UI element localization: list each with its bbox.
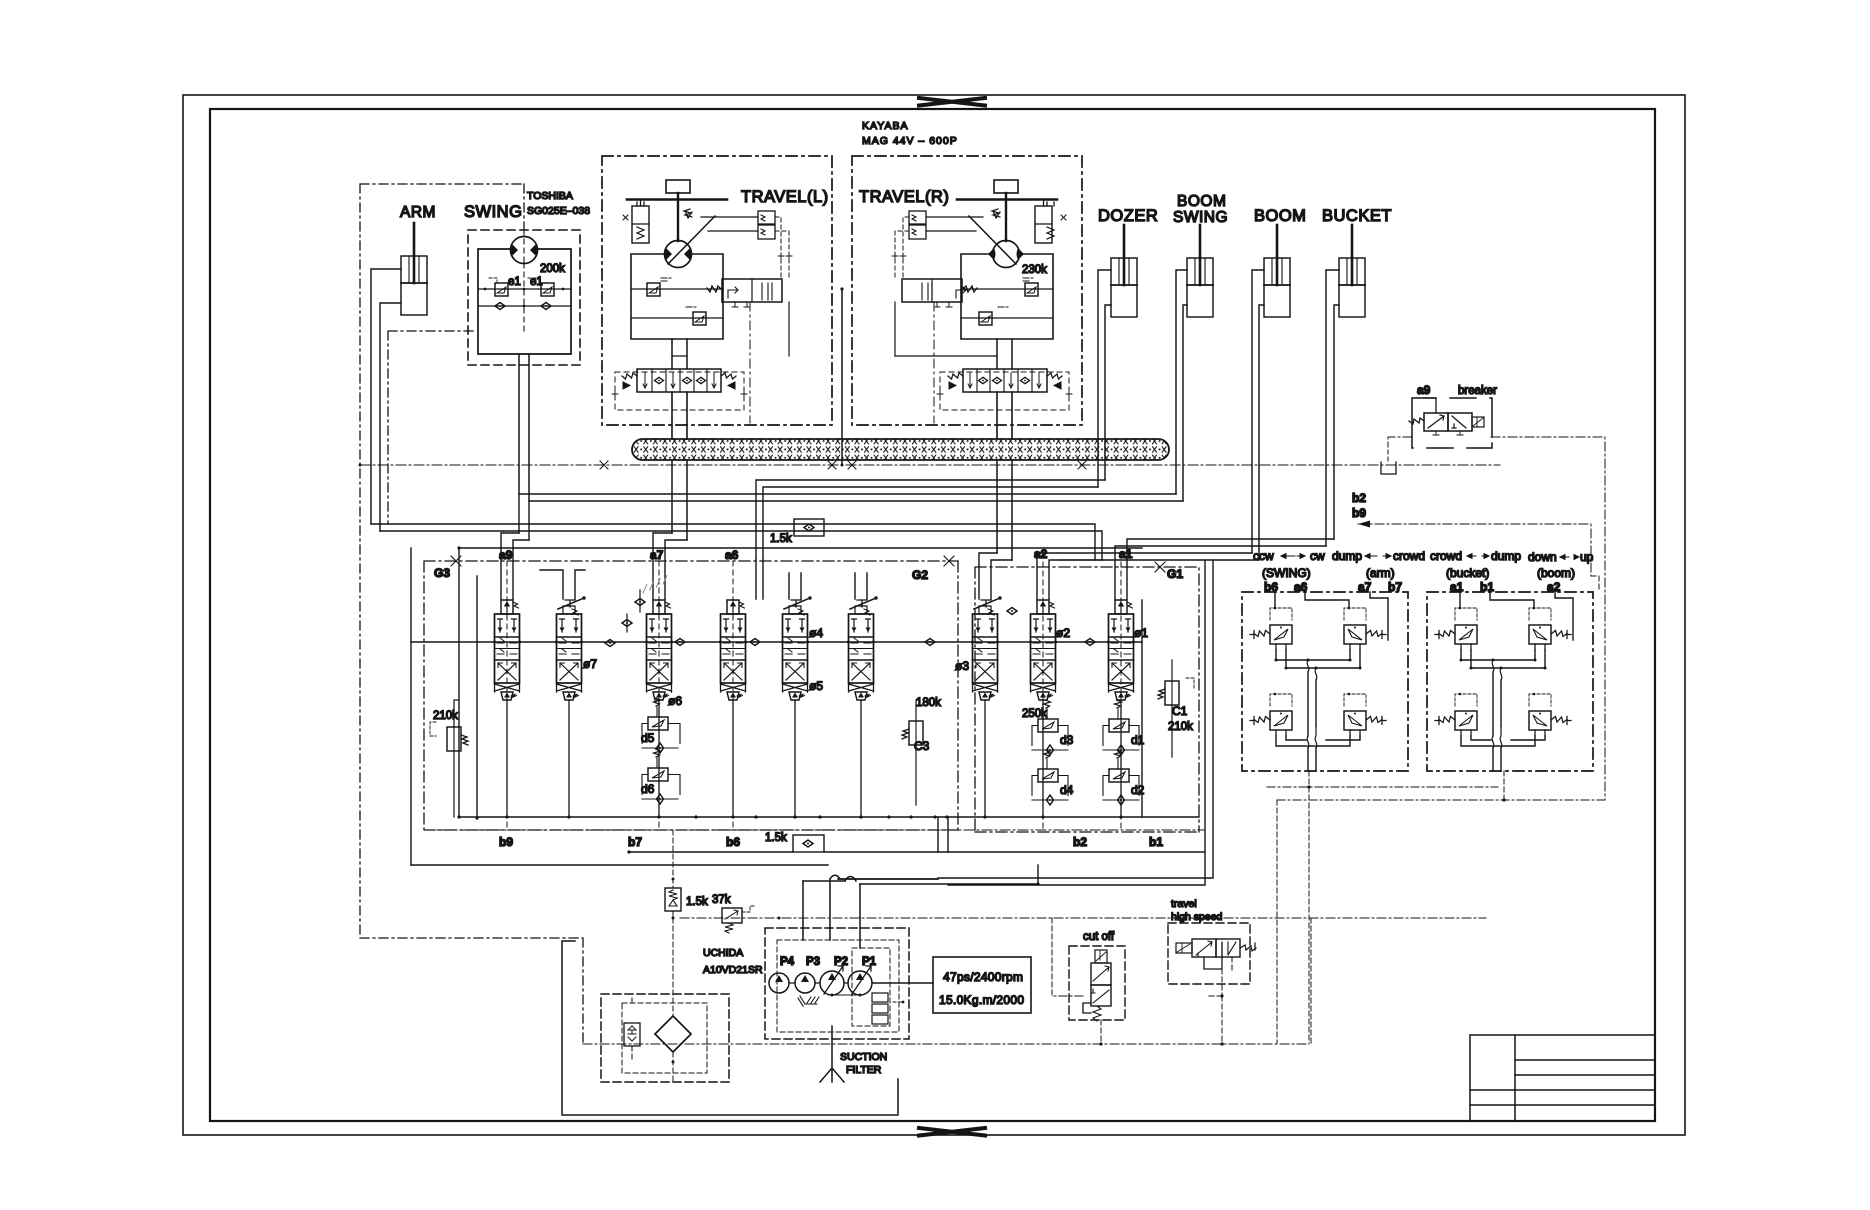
pump P1: [848, 971, 872, 995]
travel gearbox: [994, 180, 1018, 193]
svg-text:ø4: ø4: [809, 626, 823, 640]
breaker valve a9: [1409, 383, 1497, 448]
travel relief valve: [961, 288, 1053, 290]
arm cylinder: [401, 223, 427, 315]
wire manifold down: [997, 392, 1012, 439]
svg-text:SWING: SWING: [1173, 209, 1228, 226]
left frame of valve block: [411, 548, 477, 865]
svg-text:C1: C1: [1172, 704, 1188, 718]
travel relief valve 2: [631, 317, 723, 319]
travel brake manifold: [637, 369, 721, 392]
pilot reducing valve BL: [1435, 711, 1477, 736]
svg-text:P3: P3: [806, 956, 820, 968]
svg-text:G2: G2: [912, 568, 928, 582]
relief d5: [641, 698, 680, 753]
svg-text:high speed: high speed: [1171, 911, 1223, 923]
svg-text:a9: a9: [1417, 383, 1431, 397]
svg-text:15.0Kg.m/2000: 15.0Kg.m/2000: [939, 993, 1024, 1007]
svg-text:b7: b7: [628, 835, 642, 849]
svg-text:TRAVEL(R): TRAVEL(R): [859, 188, 949, 206]
svg-text:a6: a6: [725, 548, 739, 562]
pilot drain bus: [360, 464, 1500, 466]
pilot reducing valve BR: [1529, 711, 1571, 736]
suction line: [562, 941, 898, 1115]
travel speed pilot valves: [758, 211, 775, 224]
svg-text:b6: b6: [726, 835, 740, 849]
svg-text:ccw: ccw: [1253, 549, 1274, 563]
pilot control unit 1 (swing/arm): [1242, 592, 1408, 771]
svg-text:FILTER: FILTER: [846, 1064, 882, 1076]
svg-text:a1: a1: [1119, 547, 1133, 561]
wire pilot ports: [1275, 592, 1349, 608]
wire swing motor down to valve block: [519, 354, 529, 501]
wire between travel boxes: [841, 289, 843, 465]
swing motor block rect: [478, 249, 571, 354]
travel counterbalance valve: [722, 279, 782, 302]
svg-text:e1: e1: [508, 276, 521, 288]
travel brake manifold: [963, 369, 1047, 392]
tank enclosure: [601, 994, 729, 1082]
boom spool a2-b2: [1029, 600, 1057, 819]
registration mark bottom: [919, 1128, 985, 1136]
tank filter diamond: [655, 1016, 691, 1052]
svg-text:b9: b9: [1352, 506, 1366, 520]
corner tick G2: [944, 556, 954, 566]
svg-text:b9: b9: [499, 835, 513, 849]
svg-text:up: up: [1580, 550, 1594, 564]
svg-text:BOOM: BOOM: [1254, 207, 1306, 225]
svg-text:cut off: cut off: [1083, 931, 1115, 943]
border frame outer: [183, 95, 1685, 1135]
svg-text:TOSHIBA: TOSHIBA: [527, 190, 573, 202]
pump unit dashed box: [765, 928, 909, 1039]
travel hydraulic motor: [665, 241, 692, 268]
wire boom swing cylinder down: [1176, 270, 1187, 501]
wire manifold down: [672, 392, 687, 439]
travel axle: [957, 198, 1057, 201]
travel high speed valve: [1168, 898, 1256, 1046]
svg-text:a2: a2: [1547, 580, 1561, 594]
wire pilot ports: [1460, 592, 1534, 608]
svg-text:SG025E–038: SG025E–038: [527, 205, 590, 217]
pilot line breaker to pilot units: [1491, 437, 1605, 800]
pump P4: [769, 973, 789, 993]
travel(R) dash-dot box: [852, 156, 1082, 425]
svg-text:ø3: ø3: [955, 659, 969, 673]
svg-text:BUCKET: BUCKET: [1322, 207, 1392, 225]
pilot line right vertical: [1310, 918, 1312, 1044]
svg-text:TRAVEL(L): TRAVEL(L): [741, 188, 829, 206]
svg-text:200k: 200k: [540, 263, 565, 275]
relief d6: [641, 749, 680, 804]
arm spool a7-b7: [645, 600, 673, 819]
junction dots rails: [457, 815, 1039, 885]
travel gearbox: [666, 180, 690, 193]
swing2 spool a6-b6: [719, 600, 747, 819]
svg-text:b2: b2: [1073, 835, 1087, 849]
svg-text:P4: P4: [780, 956, 795, 968]
pilot reducing valve TR: [1529, 625, 1571, 650]
svg-text:a2: a2: [1034, 547, 1048, 561]
dozer spool o7: [555, 596, 586, 818]
travel parking brake: [632, 206, 649, 243]
svg-text:d6: d6: [641, 782, 655, 796]
pilot line into swing motor: [523, 230, 525, 331]
svg-text:MAG 44V – 600P: MAG 44V – 600P: [862, 135, 958, 147]
pump P3: [795, 973, 815, 993]
travel relief valve 2: [961, 317, 1053, 319]
check valve 1.5k b6 line: [765, 832, 824, 852]
spool o4-o5: [781, 596, 812, 818]
pump shaft links: [789, 982, 848, 984]
travel parking brake: [1035, 206, 1052, 243]
svg-text:(SWING): (SWING): [1262, 566, 1311, 580]
svg-text:1.5k: 1.5k: [770, 533, 792, 545]
svg-text:G3: G3: [434, 566, 450, 580]
svg-text:DOZER: DOZER: [1098, 207, 1158, 225]
relief d4: [1032, 750, 1074, 805]
wire travel R lines down: [997, 460, 1012, 560]
svg-text:breaker: breaker: [1458, 385, 1497, 397]
svg-text:d3: d3: [1060, 733, 1074, 747]
svg-text:250k: 250k: [1022, 708, 1047, 720]
bottom rails: [459, 816, 1199, 818]
travel swash control: [969, 216, 1016, 264]
svg-text:ø7: ø7: [583, 657, 597, 671]
swing spool a9-b9: [493, 600, 521, 819]
svg-text:(bucket): (bucket): [1446, 566, 1489, 580]
bucket cylinder: [1339, 225, 1365, 317]
travel swash control: [668, 216, 715, 264]
travel axle: [627, 198, 727, 201]
svg-text:1.5k: 1.5k: [765, 832, 787, 844]
svg-text:b7: b7: [1388, 580, 1402, 594]
pilot reducing valve TL: [1435, 625, 1477, 650]
pilot control unit 2 (bucket/boom): [1427, 592, 1593, 771]
travel spool o3: [971, 596, 1002, 818]
pilot pressure bus: [680, 917, 1486, 919]
svg-text:a1: a1: [1450, 580, 1464, 594]
svg-text:a7: a7: [650, 548, 664, 562]
bucket spool a1-b1: [1107, 600, 1135, 819]
pilot reducing valve BL: [1250, 711, 1292, 736]
travel counterbalance valve: [902, 279, 962, 302]
svg-text:b2: b2: [1352, 491, 1366, 505]
svg-text:37k: 37k: [712, 894, 731, 906]
travel motor block: [961, 254, 1053, 339]
boom swing cylinder: [1187, 225, 1213, 317]
svg-text:47ps/2400rpm: 47ps/2400rpm: [943, 970, 1023, 984]
svg-text:a7: a7: [1358, 580, 1372, 594]
relief C3 180k: [902, 697, 941, 805]
pilot reducing valve BR: [1344, 711, 1386, 736]
cut off valve: [1052, 918, 1125, 1046]
svg-text:SUCTION: SUCTION: [840, 1051, 887, 1063]
pilot line b2/b9: [1358, 524, 1591, 576]
pilot lines through spools: [507, 561, 1121, 830]
wire motor to brake manifold: [997, 339, 1012, 369]
breaker tank symbol: [1381, 462, 1396, 474]
registration mark top: [919, 98, 985, 106]
svg-text:SWING: SWING: [464, 203, 522, 221]
wire right side returns: [938, 560, 1213, 885]
svg-text:G1: G1: [1167, 567, 1183, 581]
wire arm cylinder to bus: [371, 269, 401, 531]
svg-text:cw: cw: [1310, 549, 1325, 563]
relief 37k: [712, 894, 756, 933]
svg-text:A10VD21SR: A10VD21SR: [703, 964, 763, 976]
svg-text:BOOM: BOOM: [1177, 193, 1226, 210]
svg-text:a9: a9: [499, 548, 513, 562]
relief 210k G3: [430, 700, 468, 817]
spec box 47ps: [933, 957, 1031, 1013]
pencil annotation: [641, 576, 669, 593]
svg-text:ø1: ø1: [1134, 626, 1148, 640]
svg-text:b6: b6: [1264, 580, 1278, 594]
tank pilot lines: [632, 918, 673, 1082]
svg-text:ø6: ø6: [668, 694, 682, 708]
wire pump suctions up: [803, 879, 860, 948]
pilot unit drain lines: [1267, 786, 1498, 788]
wire bundle upper: [371, 480, 1334, 599]
main supply rail: [411, 641, 1142, 643]
dozer cylinder: [1111, 225, 1137, 317]
svg-text:d4: d4: [1060, 783, 1074, 797]
spool: [847, 596, 878, 818]
svg-text:a6: a6: [1294, 580, 1308, 594]
wire boom cylinder down: [1252, 270, 1264, 560]
travel motor block: [631, 254, 723, 339]
relief d1: [1103, 700, 1145, 755]
svg-text:(boom): (boom): [1537, 566, 1575, 580]
svg-text:ø2: ø2: [1056, 626, 1070, 640]
wire dozer cylinder down: [1098, 270, 1111, 487]
rail check valves: [605, 640, 615, 647]
swing relief valves e1: [478, 278, 571, 296]
travel(L) dash-dot box: [602, 156, 832, 425]
title block: [1470, 1035, 1655, 1121]
svg-text:travel: travel: [1171, 898, 1197, 910]
swing hydraulic motor M1: [511, 237, 538, 264]
svg-text:UCHIDA: UCHIDA: [703, 947, 743, 959]
long pilot drain bus bottom: [583, 1043, 1309, 1045]
tank check valve: [624, 1023, 640, 1046]
valve block G3 dash-dot boundary: [424, 561, 1199, 832]
pump P2: [820, 971, 844, 995]
svg-text:d5: d5: [641, 731, 655, 745]
svg-text:ø5: ø5: [809, 679, 823, 693]
svg-text:ARM: ARM: [400, 204, 436, 221]
relief C1 210k: [1158, 660, 1194, 757]
travel relief valve: [631, 288, 723, 290]
pilot reducing valve TL: [1250, 625, 1292, 650]
svg-text:down: down: [1528, 550, 1557, 564]
svg-text:KAYABA: KAYABA: [862, 120, 908, 132]
swing check valves: [478, 303, 571, 310]
pump spring: [805, 997, 819, 1004]
svg-text:230k: 230k: [1022, 264, 1047, 276]
swing unit dashed box: [468, 230, 580, 365]
relief 1.5k pump line: [665, 830, 708, 920]
svg-text:crowd: crowd: [1393, 549, 1425, 563]
check valve 1.5k in pilot line: [770, 519, 824, 545]
svg-text:b1: b1: [1149, 835, 1163, 849]
svg-text:1.5k: 1.5k: [686, 896, 708, 908]
corner tick G1: [1155, 562, 1165, 572]
svg-text:crowd: crowd: [1430, 549, 1462, 563]
wire motor to brake manifold: [672, 339, 687, 369]
svg-text:b1: b1: [1480, 580, 1494, 594]
relief d3 250k: [1022, 700, 1074, 755]
boom cylinder: [1264, 225, 1290, 317]
border frame inner: [210, 109, 1655, 1121]
svg-text:dump: dump: [1491, 549, 1521, 563]
relief d2: [1103, 750, 1145, 805]
wire pump P1 discharge to spec box: [872, 982, 933, 984]
svg-text:(arm): (arm): [1366, 566, 1395, 580]
svg-text:180k: 180k: [916, 697, 941, 709]
pilot dash-dot enclosure left: [360, 184, 583, 1044]
pump drain ports: [872, 993, 888, 1002]
pilot reducing valve TR: [1344, 625, 1386, 650]
wire bucket cylinder down: [1326, 270, 1339, 546]
wire travel L lines down: [672, 460, 687, 540]
svg-text:dump: dump: [1332, 549, 1362, 563]
travel hydraulic motor: [993, 241, 1020, 268]
corner tick G3: [451, 556, 461, 566]
travel speed pilot valves: [909, 211, 926, 224]
hose bundle capsule: [632, 439, 1169, 460]
